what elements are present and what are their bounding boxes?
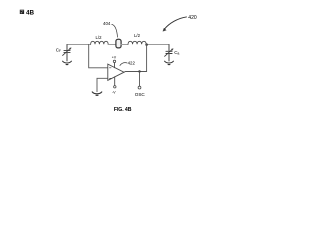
op-amp 422 triangle xyxy=(108,64,124,80)
svg-text:404: 404 xyxy=(103,21,111,26)
leader line for 404 xyxy=(112,24,118,37)
power pin -V xyxy=(114,77,116,88)
svg-text:L/2: L/2 xyxy=(134,33,141,38)
wire CF to rail xyxy=(66,45,68,51)
svg-text:OSC: OSC xyxy=(135,92,146,97)
svg-text:422: 422 xyxy=(128,60,136,65)
wire rail inductor to crystal xyxy=(108,44,116,46)
node junction rail-feedback xyxy=(145,43,148,46)
capacitor CF (variable) xyxy=(63,48,72,61)
crystal resonator 404 xyxy=(116,39,121,48)
ground below Ca xyxy=(165,61,174,64)
wire Ca branch xyxy=(168,45,170,52)
svg-text:4B: 4B xyxy=(26,9,35,16)
svg-text:420: 420 xyxy=(188,15,197,21)
svg-text:FIG. 4B: FIG. 4B xyxy=(114,107,132,113)
wire crystal to right inductor xyxy=(121,44,128,46)
wire OSC stub xyxy=(139,72,141,87)
wire top rail right segment xyxy=(146,44,169,46)
capacitor Ca (variable) xyxy=(165,49,174,61)
header label 图 4B xyxy=(20,9,35,16)
power pin +V xyxy=(113,60,115,67)
inductor L/2 right xyxy=(128,41,146,44)
svg-text:Ca: Ca xyxy=(174,50,179,56)
svg-text:L/2: L/2 xyxy=(96,35,103,40)
svg-text:CF: CF xyxy=(56,47,61,53)
svg-text:+V: +V xyxy=(112,56,117,60)
inductor L/2 left xyxy=(91,41,109,44)
ground below amp xyxy=(92,92,102,95)
wire left branch to amp input xyxy=(89,45,108,68)
ground below CF xyxy=(63,61,72,64)
terminal OSC xyxy=(138,86,141,89)
node OSC tee xyxy=(138,70,140,72)
wire top rail left segment xyxy=(67,44,91,46)
reference arrow 420 xyxy=(163,17,187,31)
op-amp input tick upper xyxy=(109,67,111,69)
wire output feedback xyxy=(124,45,147,73)
op-amp input tick lower xyxy=(109,77,111,79)
leader line for 422 xyxy=(120,63,127,66)
wire inverting input to ground xyxy=(97,78,108,91)
svg-text:-V: -V xyxy=(112,90,116,94)
